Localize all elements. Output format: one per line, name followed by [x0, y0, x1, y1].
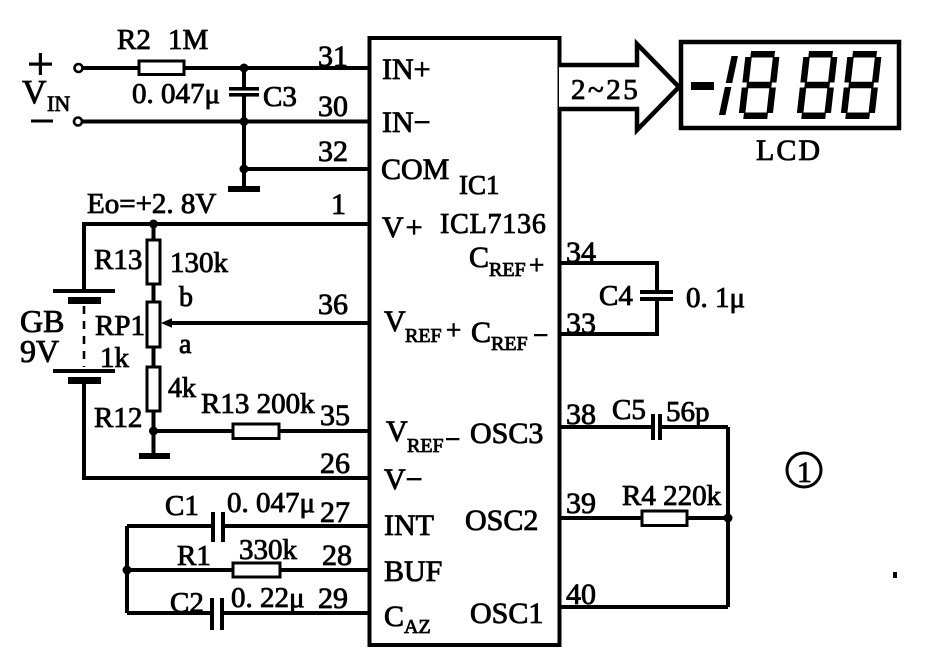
- svg-text:ICL7136: ICL7136: [440, 209, 547, 240]
- capacitor C1: [165, 487, 315, 542]
- svg-text:V: V: [384, 305, 406, 338]
- wire pin32 COM: [244, 167, 369, 171]
- ground below R12: [139, 431, 170, 459]
- svg-text:OSC2: OSC2: [465, 504, 538, 537]
- node junction dot mid C3: [240, 117, 249, 126]
- LCD digit 8 third: [844, 54, 879, 116]
- svg-text:+: +: [446, 315, 461, 345]
- svg-text:C3: C3: [263, 81, 297, 113]
- svg-text:1: 1: [331, 188, 346, 221]
- svg-text:V: V: [386, 415, 408, 448]
- svg-text:V+: V+: [382, 211, 425, 244]
- svg-text:R13 200k: R13 200k: [201, 388, 315, 420]
- bus arrow 2~25 to LCD: [559, 44, 679, 130]
- svg-text:REF: REF: [491, 333, 528, 355]
- wire pin38 left segment: [558, 425, 652, 429]
- wire C3 to COM node: [242, 122, 246, 170]
- resistor R4: [622, 480, 722, 526]
- LCD minus segment: [691, 82, 714, 90]
- wire pin31 right segment: [184, 66, 369, 70]
- LCD digit 8 second: [800, 54, 835, 116]
- svg-text:C1: C1: [165, 490, 199, 522]
- node junction dot top of C3: [240, 64, 249, 73]
- ground near C3: [228, 169, 260, 192]
- svg-text:1k: 1k: [100, 342, 130, 374]
- svg-text:C: C: [471, 316, 491, 349]
- svg-text:OSC1: OSC1: [470, 597, 543, 630]
- wire pin31 left segment: [83, 66, 139, 70]
- svg-text:29: 29: [318, 582, 348, 615]
- wire pin35 right segment: [279, 429, 369, 433]
- wire pin30: [82, 120, 369, 124]
- wire pin27 right segment: [225, 524, 369, 528]
- svg-text:a: a: [179, 329, 192, 360]
- svg-text:27: 27: [320, 496, 350, 529]
- svg-text:REF: REF: [489, 259, 526, 281]
- svg-text:31: 31: [318, 40, 348, 73]
- wire chain seg4: [152, 411, 156, 431]
- wire pin38 right segment: [662, 425, 728, 429]
- resistor R13 200k horizontal: [201, 388, 315, 439]
- node junction dot chain top: [149, 220, 158, 229]
- svg-text:IN+: IN+: [382, 53, 431, 86]
- svg-text:2~25: 2~25: [571, 74, 640, 106]
- svg-text:32: 32: [318, 135, 348, 168]
- wire chain seg2: [152, 284, 156, 302]
- svg-text:INT: INT: [384, 509, 434, 542]
- wire pin29 right segment: [224, 611, 369, 615]
- battery GB 9V: [20, 289, 115, 384]
- resistor R13 vertical: [94, 240, 229, 284]
- resistor R2: [117, 24, 208, 75]
- svg-text:AZ: AZ: [404, 616, 431, 638]
- capacitor C5: [612, 394, 710, 440]
- resistor R1: [177, 534, 298, 577]
- svg-text:R4 220k: R4 220k: [622, 480, 722, 512]
- svg-text:C: C: [384, 600, 404, 633]
- svg-text:−: −: [533, 320, 548, 350]
- svg-text:Eo=+2. 8V: Eo=+2. 8V: [87, 188, 216, 220]
- wire pin35 left segment: [154, 429, 234, 433]
- wire chain seg3: [152, 347, 156, 367]
- wire pin29 left segment: [127, 611, 210, 615]
- ink speck: [893, 572, 897, 578]
- svg-text:R13: R13: [94, 244, 142, 276]
- svg-text:BUF: BUF: [384, 555, 442, 588]
- capacitor C4: [599, 280, 745, 314]
- svg-text:330k: 330k: [239, 534, 298, 566]
- svg-text:R12: R12: [94, 402, 142, 434]
- wire pin33 C4 bottom: [558, 301, 657, 334]
- wire chain seg1: [152, 224, 156, 240]
- svg-text:36: 36: [318, 288, 348, 321]
- wire pin26 V-: [84, 476, 369, 480]
- wire right bus OSC: [726, 427, 730, 607]
- node junction dot OSC bus: [724, 514, 733, 523]
- svg-text:REF: REF: [405, 325, 442, 347]
- svg-text:39: 39: [566, 487, 596, 520]
- svg-text:0. 047μ: 0. 047μ: [227, 487, 315, 519]
- svg-text:R2: R2: [117, 24, 151, 56]
- svg-text:LCD: LCD: [756, 134, 822, 167]
- wire battery top: [82, 222, 86, 291]
- capacitor C3: [132, 68, 297, 122]
- wire pin40: [558, 605, 728, 609]
- svg-text:REF: REF: [407, 435, 444, 457]
- node VIN+ terminal: [29, 53, 83, 75]
- svg-text:−: −: [445, 424, 460, 454]
- svg-text:1M: 1M: [168, 24, 208, 56]
- svg-text:1: 1: [797, 456, 812, 489]
- svg-text:0. 1μ: 0. 1μ: [686, 282, 745, 314]
- svg-text:C: C: [469, 241, 489, 274]
- svg-text:V−: V−: [384, 463, 423, 496]
- wire left bus C1 R1 C2: [125, 526, 129, 613]
- svg-text:V: V: [22, 74, 47, 111]
- node junction dot R1 bus: [123, 566, 132, 575]
- wire pin39 left segment: [558, 516, 642, 520]
- svg-text:+: +: [529, 250, 544, 280]
- resistor R12: [94, 367, 196, 434]
- wire pin36 wiper with arrow: [161, 318, 369, 328]
- svg-text:C4: C4: [599, 280, 633, 312]
- svg-text:9V: 9V: [20, 333, 59, 369]
- svg-text:30: 30: [318, 90, 348, 123]
- wire pin39 right segment: [687, 516, 728, 520]
- svg-text:0. 047μ: 0. 047μ: [132, 78, 220, 110]
- wire pin27 left segment: [127, 524, 211, 528]
- svg-text:IC1: IC1: [459, 170, 500, 200]
- svg-text:56p: 56p: [666, 396, 710, 428]
- svg-text:4k: 4k: [168, 373, 196, 404]
- wire battery bottom: [82, 384, 86, 480]
- svg-text:C5: C5: [612, 394, 646, 426]
- svg-text:28: 28: [322, 539, 352, 572]
- wire pin1 V+: [84, 222, 369, 226]
- wire pin34 C4 top: [558, 263, 657, 290]
- svg-text:130k: 130k: [170, 247, 229, 279]
- svg-text:26: 26: [320, 447, 350, 480]
- wire pin28 right segment: [280, 568, 369, 572]
- op-amp U1 : IC1 ICL7136 body: [370, 38, 560, 645]
- svg-text:R1: R1: [177, 540, 211, 572]
- LCD digit 8 first: [742, 54, 777, 116]
- svg-text:RP1: RP1: [95, 310, 145, 342]
- svg-text:OSC3: OSC3: [470, 417, 543, 450]
- wire pin28 left segment: [127, 568, 233, 572]
- svg-text:IN−: IN−: [382, 106, 431, 139]
- figure number circled 1: [787, 453, 821, 489]
- svg-text:IN: IN: [47, 91, 70, 116]
- svg-text:C2: C2: [170, 587, 204, 619]
- svg-text:COM: COM: [381, 153, 449, 186]
- svg-text:0. 22μ: 0. 22μ: [231, 582, 305, 614]
- svg-text:35: 35: [320, 399, 350, 432]
- node VIN- terminal: [31, 118, 82, 126]
- node junction dot COM: [240, 165, 249, 174]
- LCD display box: [681, 42, 899, 167]
- potentiometer RP1: [95, 282, 193, 374]
- node VIN label: [22, 74, 70, 116]
- node junction dot chain bottom: [149, 427, 158, 436]
- LCD digit 1: [722, 56, 735, 115]
- capacitor C2: [170, 582, 305, 630]
- svg-text:b: b: [179, 282, 193, 313]
